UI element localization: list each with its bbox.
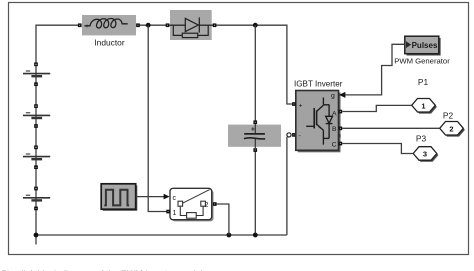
wire: bottom bus (36, 234, 287, 236)
svg-text:Inductor: Inductor (94, 38, 124, 48)
pulse generator block (101, 184, 137, 211)
diode D1 triangle (185, 18, 198, 31)
capacitor C1 polarity plus (251, 127, 254, 130)
battery DC4 (23, 187, 50, 211)
wire: pulse generator to breaker c (136, 196, 164, 198)
connection port hexagon 3 (413, 147, 438, 162)
svg-text:IGBT Inverter: IGBT Inverter (294, 79, 343, 88)
IGBT inverter U1 body (296, 91, 339, 151)
port: diode left (166, 23, 170, 27)
svg-text:1: 1 (173, 210, 177, 217)
svg-text:C: C (332, 141, 337, 148)
diode D1 cathode lead (199, 24, 213, 26)
diode D1 anode lead (170, 24, 186, 26)
port: diode right (213, 23, 217, 27)
svg-text:PWM Generator: PWM Generator (394, 56, 450, 65)
port: capacitor top (253, 120, 257, 124)
IGBT with antiparallel diode icon (306, 98, 332, 145)
PWM generator shadow (407, 38, 441, 56)
wire: J2 down to capacitor (254, 25, 256, 122)
port: IGBT - (minus) (292, 133, 296, 137)
wire: IGBT C to port P3 (342, 144, 413, 154)
wire: J1 down to breaker input 1 (148, 25, 167, 211)
capacitor C1 bottom plate (244, 138, 265, 139)
inductor L1 polarity plus (86, 25, 89, 28)
diode D1 body (170, 10, 212, 40)
wire: bus up to IGBT - port (286, 137, 288, 235)
junction J1 (146, 23, 151, 28)
svg-text:Pulses: Pulses (412, 41, 438, 50)
port: breaker input 1 (166, 210, 170, 214)
wire: stub below bottom junction (35, 235, 37, 245)
svg-text:P2: P2 (443, 110, 454, 120)
breaker wire to resistor right (196, 206, 203, 215)
arrowhead into breaker c (164, 194, 170, 200)
capacitor C1 block (228, 124, 281, 148)
hexagon 1 shadow (413, 100, 437, 114)
breaker contact left (178, 201, 183, 206)
diode D1 block (170, 10, 214, 40)
wire: PWM generator to IGBT g (345, 44, 405, 95)
port: breaker output 2 (213, 202, 217, 206)
port: IGBT A (339, 110, 343, 114)
inductor block (82, 15, 136, 35)
battery DC2 (23, 104, 50, 128)
wire: diode to IGBT + port (215, 25, 294, 104)
wire: capacitor to bottom bus (254, 150, 256, 235)
breaker B1 body (170, 188, 212, 219)
inductor L1 coil (85, 19, 128, 28)
pulse generator square-wave icon (104, 190, 129, 206)
hexagon 3 body (413, 147, 437, 161)
wire: IGBT A to port P1 (342, 105, 411, 111)
junction: breaker-bus (227, 233, 232, 238)
capacitor C1 top plate (244, 133, 265, 135)
node: open circle at IGBT - port (287, 133, 291, 137)
breaker blade (183, 190, 210, 204)
breaker wire to resistor left (180, 206, 186, 215)
hexagon 3 shadow (415, 148, 439, 162)
IGBT inverter U1 shadow (298, 93, 341, 153)
PWM generator output chevron (406, 41, 411, 48)
svg-text:1: 1 (421, 101, 425, 110)
PWM generator block (405, 36, 441, 55)
svg-text:2: 2 (449, 124, 453, 133)
port: IGBT B (339, 127, 343, 131)
junction J2 (253, 23, 258, 28)
hexagon 1 body (412, 99, 436, 113)
port: inductor right (136, 23, 140, 27)
tiny mark between B and C ports (339, 134, 341, 137)
pulse generator body (101, 184, 136, 209)
battery DC1 (23, 62, 50, 86)
svg-text:c: c (173, 195, 177, 202)
battery DC3 (23, 145, 50, 169)
connection port hexagon 2 (440, 122, 465, 137)
snubber wire left (173, 25, 182, 35)
svg-text:-: - (299, 132, 301, 139)
hexagon 2 shadow (441, 123, 465, 137)
port: inductor left (78, 23, 82, 27)
connection port hexagon 1 (412, 99, 437, 114)
wire: breaker output to bottom bus (217, 204, 229, 235)
svg-text:B: B (332, 126, 337, 133)
port: IGBT + (292, 102, 296, 106)
junction: battery-bus (34, 233, 39, 238)
breaker contact right (201, 201, 206, 206)
wire: IGBT B to port P2 (342, 127, 439, 129)
wire: battery column (35, 64, 37, 235)
pulse generator shadow (103, 185, 138, 210)
wire: inductor to diode (138, 24, 167, 26)
svg-text:P1: P1 (418, 77, 429, 87)
svg-text:+: + (299, 103, 303, 110)
IGBT inverter block (296, 91, 341, 153)
port: capacitor bottom (253, 148, 257, 152)
capacitor C1 body (228, 125, 281, 147)
PWM generator body (405, 36, 439, 54)
inductor L1 body (82, 15, 136, 35)
svg-text:g: g (331, 92, 335, 99)
svg-text:P3: P3 (416, 133, 427, 143)
arrowhead into IGBT g (339, 92, 345, 98)
diode D1 cathode bar (198, 17, 200, 32)
port: IGBT C (339, 142, 343, 146)
breaker internal resistor (187, 213, 197, 219)
svg-text:3: 3 (423, 150, 427, 159)
wire: battery column to inductor (top-left corner) (36, 25, 79, 66)
junction: capacitor-bus (253, 233, 258, 238)
hexagon 2 body (440, 122, 464, 136)
breaker B1 shadow (172, 190, 214, 221)
snubber resistor Rs (182, 33, 197, 37)
breaker block (170, 188, 214, 221)
snubber wire right (198, 25, 209, 35)
